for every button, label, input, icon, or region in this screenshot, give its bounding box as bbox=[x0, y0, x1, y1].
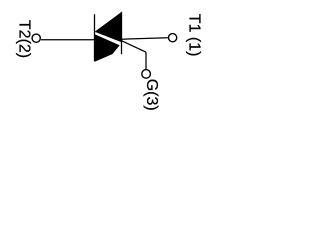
wire T2 to triac bbox=[41, 39, 95, 41]
triac lower triangle bbox=[95, 34, 120, 62]
triac right bar bbox=[121, 12, 123, 55]
svg-text:T1 (1): T1 (1) bbox=[185, 14, 202, 57]
terminal circle T1 bbox=[169, 34, 177, 42]
triac upper triangle bbox=[95, 12, 122, 42]
svg-text:T2(2): T2(2) bbox=[15, 20, 32, 58]
terminal circle G bbox=[142, 70, 151, 79]
gate wire diagonal bbox=[122, 41, 146, 52]
gate wire vertical bbox=[145, 52, 147, 69]
svg-text:G(3): G(3) bbox=[143, 79, 160, 111]
wire triac to T1 bbox=[121, 38, 167, 40]
triac left bar bbox=[94, 14, 96, 61]
terminal circle T2 bbox=[32, 34, 40, 42]
